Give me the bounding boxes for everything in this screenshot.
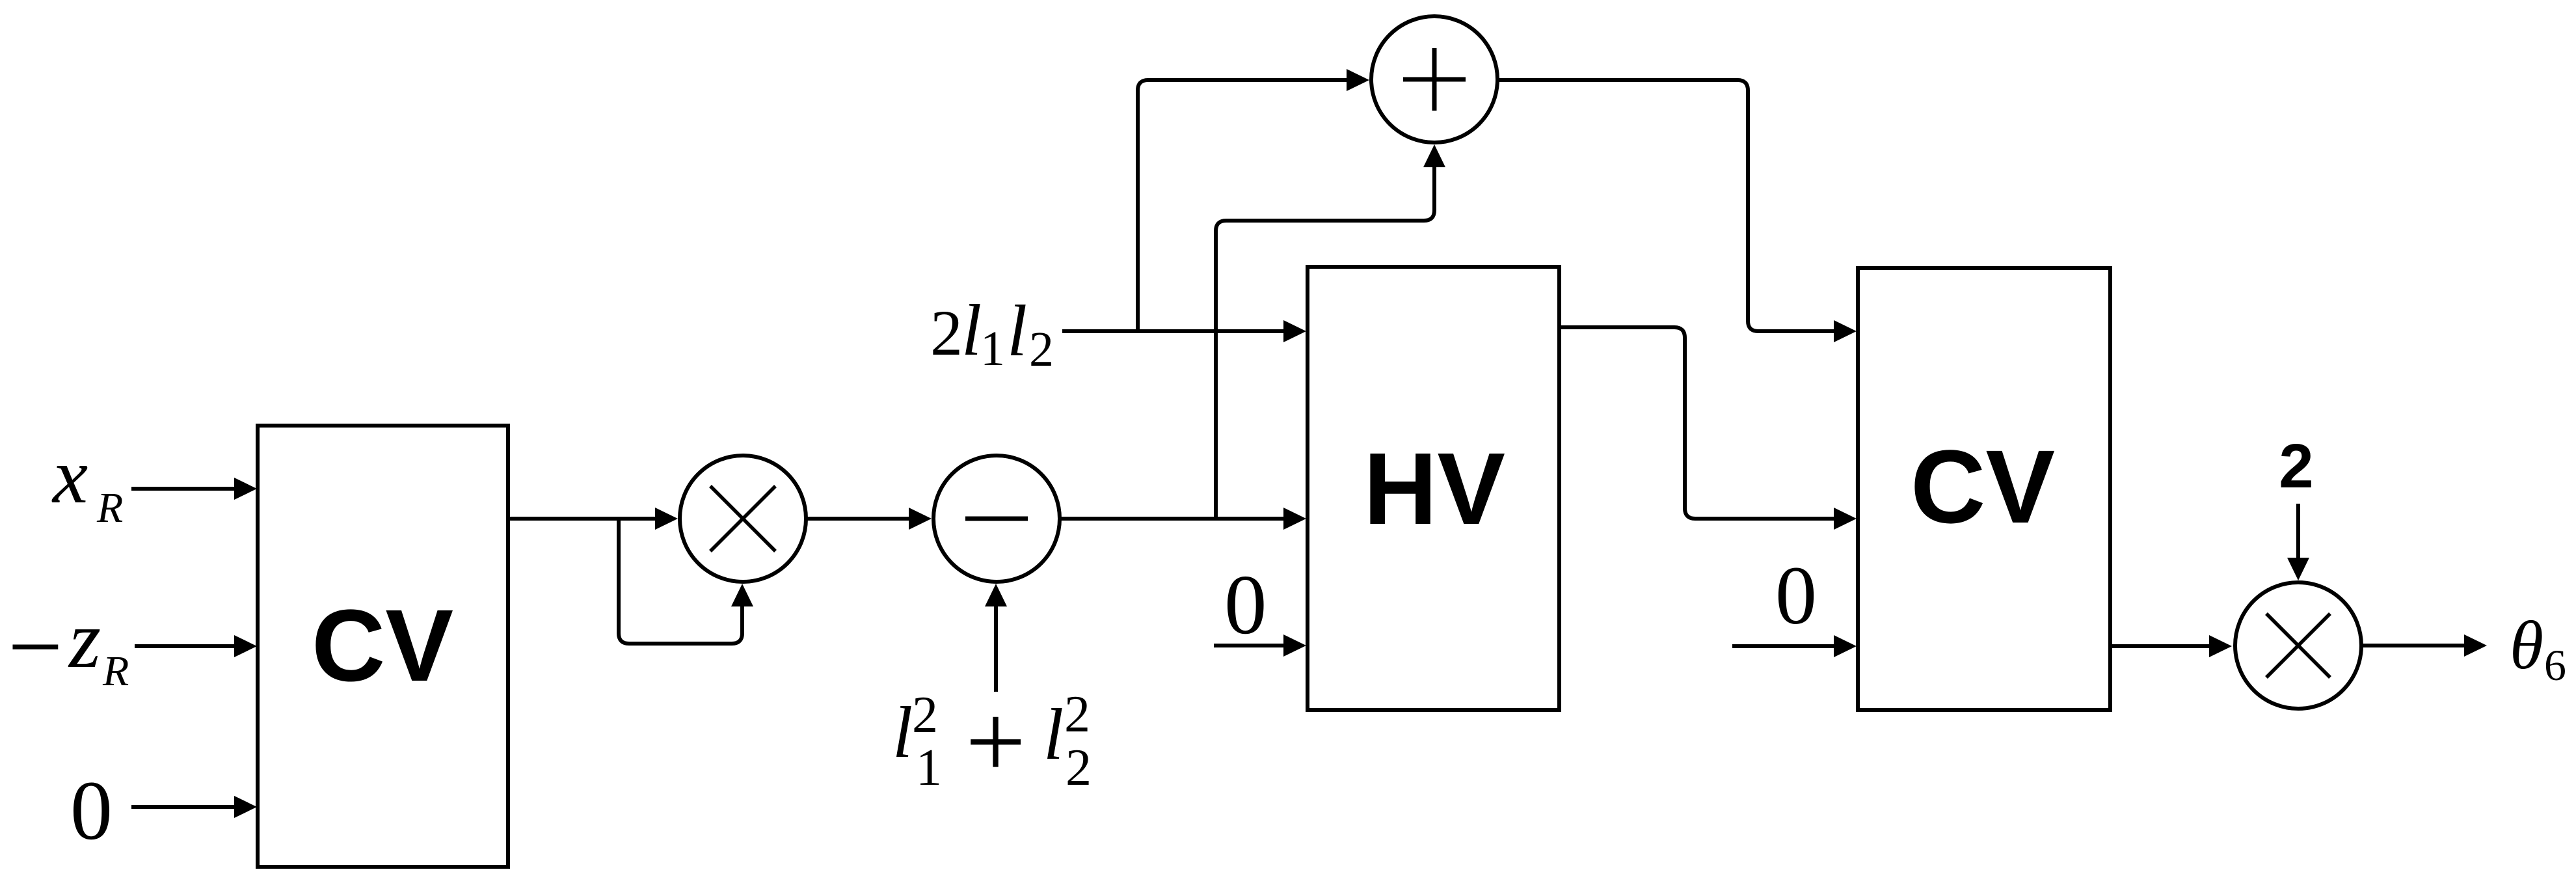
svg-text:l: l bbox=[961, 290, 982, 371]
svg-text:0: 0 bbox=[1775, 549, 1817, 642]
svg-text:R: R bbox=[102, 647, 129, 695]
svg-text:x: x bbox=[51, 432, 88, 520]
svg-text:2: 2 bbox=[1066, 739, 1092, 796]
svg-text:l: l bbox=[1043, 694, 1064, 775]
svg-text:R: R bbox=[96, 484, 123, 532]
svg-text:−: − bbox=[8, 593, 63, 701]
svg-text:HV: HV bbox=[1363, 432, 1505, 546]
svg-text:θ: θ bbox=[2510, 607, 2543, 683]
svg-text:l: l bbox=[892, 692, 913, 773]
svg-text:2: 2 bbox=[1064, 686, 1090, 743]
svg-text:CV: CV bbox=[1911, 428, 2055, 545]
svg-text:2: 2 bbox=[1029, 322, 1054, 377]
svg-text:z: z bbox=[68, 595, 101, 685]
svg-text:0: 0 bbox=[1224, 558, 1267, 652]
svg-text:1: 1 bbox=[916, 739, 942, 796]
svg-text:+: + bbox=[965, 682, 1026, 801]
svg-text:CV: CV bbox=[312, 589, 453, 703]
svg-text:1: 1 bbox=[980, 321, 1005, 376]
svg-text:2: 2 bbox=[912, 687, 938, 744]
svg-text:6: 6 bbox=[2544, 640, 2566, 690]
svg-text:0: 0 bbox=[70, 764, 113, 858]
svg-text:2: 2 bbox=[930, 297, 963, 369]
svg-text:2: 2 bbox=[2279, 431, 2313, 501]
svg-text:l: l bbox=[1007, 291, 1027, 372]
